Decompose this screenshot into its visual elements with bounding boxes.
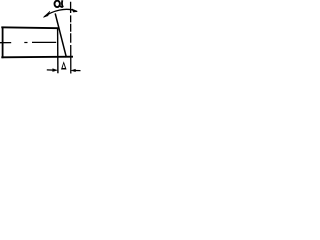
end-face vertical line / left extension line xyxy=(57,28,59,73)
angle arc xyxy=(44,9,77,16)
alpha label xyxy=(55,0,64,7)
right dimension arrow xyxy=(75,70,81,72)
left dimension arrow xyxy=(47,69,54,71)
delta label xyxy=(61,61,67,69)
bar top edge xyxy=(1,26,58,29)
angle arc left arrowhead xyxy=(43,11,50,17)
dashed vertical reference line / right extension line xyxy=(70,2,72,74)
tilted end-face (diagonal at angle alpha) xyxy=(55,13,66,57)
angle arc right arrowhead xyxy=(72,9,77,12)
bar bottom edge xyxy=(1,56,73,59)
bar axis centerline (dash-dot) xyxy=(0,42,11,44)
bar left end cap xyxy=(2,27,4,59)
